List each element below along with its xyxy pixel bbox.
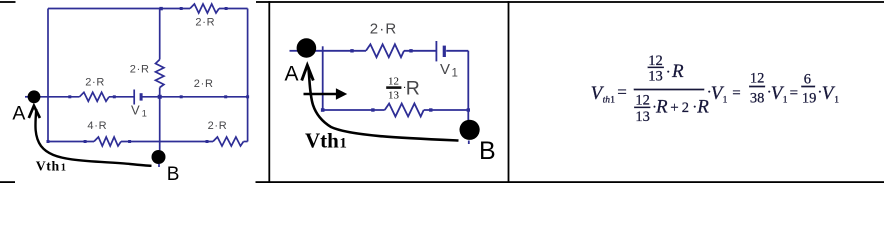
svg-text:2·R: 2·R bbox=[130, 63, 150, 75]
svg-text:+: + bbox=[670, 100, 678, 116]
svg-text:1: 1 bbox=[610, 96, 615, 106]
svg-text:13: 13 bbox=[388, 90, 400, 102]
svg-text:B: B bbox=[479, 137, 496, 165]
svg-text:=: = bbox=[732, 85, 740, 101]
svg-text:R: R bbox=[406, 78, 420, 100]
svg-text:19: 19 bbox=[802, 91, 817, 107]
svg-text:V1: V1 bbox=[131, 102, 147, 119]
svg-text:6: 6 bbox=[804, 72, 811, 88]
svg-text:=: = bbox=[790, 85, 798, 101]
svg-text:=: = bbox=[617, 83, 627, 102]
svg-text:Vth1: Vth1 bbox=[36, 158, 67, 173]
svg-text:1: 1 bbox=[834, 96, 839, 106]
svg-text:A: A bbox=[12, 103, 25, 125]
svg-text:·: · bbox=[666, 64, 671, 80]
svg-text:B: B bbox=[167, 164, 180, 184]
svg-text:1: 1 bbox=[783, 96, 788, 106]
svg-text:4·R: 4·R bbox=[87, 120, 107, 132]
svg-text:12: 12 bbox=[635, 93, 650, 109]
svg-text:R: R bbox=[655, 96, 668, 117]
svg-text:2·R: 2·R bbox=[195, 16, 215, 28]
svg-text:1: 1 bbox=[723, 96, 728, 106]
svg-text:13: 13 bbox=[635, 109, 650, 125]
svg-text:2·R: 2·R bbox=[85, 76, 105, 88]
svg-text:12: 12 bbox=[388, 76, 399, 88]
svg-text:Vth1: Vth1 bbox=[305, 129, 347, 153]
svg-text:A: A bbox=[285, 63, 299, 86]
svg-text:2·R: 2·R bbox=[370, 20, 398, 37]
svg-text:12: 12 bbox=[648, 53, 663, 69]
svg-text:2: 2 bbox=[682, 100, 689, 116]
svg-text:th: th bbox=[603, 96, 611, 106]
svg-text:V1: V1 bbox=[440, 61, 458, 80]
svg-text:2·R: 2·R bbox=[194, 78, 214, 90]
svg-text:38: 38 bbox=[750, 91, 765, 107]
svg-text:13: 13 bbox=[648, 68, 663, 84]
svg-text:12: 12 bbox=[750, 71, 765, 87]
svg-text:R: R bbox=[671, 61, 684, 82]
svg-text:2·R: 2·R bbox=[208, 120, 228, 132]
